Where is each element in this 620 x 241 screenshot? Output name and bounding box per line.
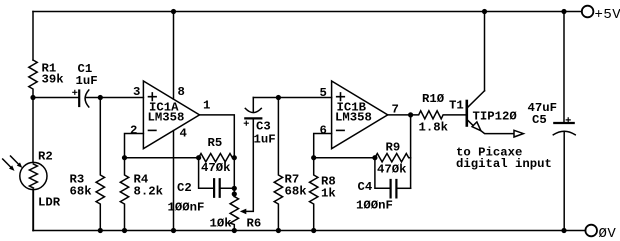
svg-text:R1Ø: R1Ø bbox=[422, 92, 445, 106]
resistor R3 68k bbox=[70, 98, 105, 231]
resistor R10 1.8k bbox=[411, 92, 467, 135]
svg-text:LM358: LM358 bbox=[148, 111, 185, 125]
light arrow 2 into LDR bbox=[3, 159, 15, 171]
wire left rail bottom corner bbox=[32, 190, 34, 231]
wire C3 bottom to R6 wiper bbox=[240, 118, 254, 214]
svg-text:5: 5 bbox=[320, 86, 327, 100]
svg-text:39k: 39k bbox=[42, 73, 65, 87]
wire +5V top rail bbox=[33, 11, 582, 13]
node pin8 on top rail bbox=[171, 9, 176, 14]
light arrow 1 into LDR bbox=[11, 156, 23, 168]
node R9/C4 left bbox=[372, 155, 377, 160]
svg-text:3: 3 bbox=[133, 85, 140, 99]
wire 0V bottom rail bbox=[33, 230, 585, 232]
svg-text:68k: 68k bbox=[285, 185, 308, 199]
wire emitter to Picaxe output arrow bbox=[481, 130, 524, 137]
svg-text:1ØØnF: 1ØØnF bbox=[356, 199, 393, 213]
resistor R8 1k bbox=[310, 158, 337, 231]
wire left rail to LDR bbox=[32, 98, 34, 163]
svg-text:1uF: 1uF bbox=[76, 74, 98, 88]
svg-text:R2: R2 bbox=[38, 150, 53, 164]
node R6 top bbox=[232, 191, 237, 196]
resistor R9 470k bbox=[375, 141, 411, 177]
op-amp U1 IC1A LM358 bbox=[143, 81, 210, 149]
svg-text:digital input: digital input bbox=[456, 157, 552, 171]
node collector on top rail bbox=[482, 9, 487, 14]
node R8 tap bbox=[311, 155, 316, 160]
wire IC1A output pin 1 bbox=[200, 115, 235, 158]
node C2 right bbox=[232, 186, 237, 191]
svg-text:1ØØnF: 1ØØnF bbox=[168, 201, 205, 215]
svg-text:C5: C5 bbox=[532, 113, 547, 127]
svg-text:1uF: 1uF bbox=[254, 133, 276, 147]
potentiometer R6 10k bbox=[210, 197, 262, 231]
node R1/C1/LDR junction bbox=[30, 95, 35, 100]
svg-text:8: 8 bbox=[178, 85, 185, 99]
wire IC1B output pin 7 bbox=[388, 114, 411, 116]
svg-text:T1: T1 bbox=[449, 99, 464, 113]
svg-text:1: 1 bbox=[203, 99, 210, 113]
wire node to C1 bbox=[33, 97, 79, 99]
wire C3 to IC1B pin 5 bbox=[253, 86, 331, 100]
node R6 bottom bbox=[232, 228, 237, 233]
wire IC1B pin 6 feedback bbox=[314, 123, 332, 157]
node output/R10 junction bbox=[408, 112, 413, 117]
svg-text:1Øk: 1Øk bbox=[210, 217, 233, 231]
svg-text:47Øk: 47Øk bbox=[201, 161, 231, 175]
svg-text:R9: R9 bbox=[386, 141, 401, 155]
terminal 0V bbox=[585, 225, 616, 241]
node R8 bottom bbox=[311, 228, 316, 233]
resistor R4 8.2k bbox=[120, 158, 163, 231]
svg-text:R6: R6 bbox=[247, 217, 262, 231]
node C5 bottom bbox=[561, 228, 566, 233]
svg-text:1.8k: 1.8k bbox=[419, 121, 449, 135]
wire feedback rail stage2 bbox=[314, 157, 375, 159]
svg-text:LDR: LDR bbox=[38, 196, 61, 210]
wire C1 to IC1A pin 3 bbox=[85, 85, 143, 99]
capacitor C1 1uF bbox=[73, 62, 98, 107]
capacitor C3 1uF bbox=[244, 98, 275, 147]
photoresistor R2 LDR bbox=[20, 150, 61, 231]
resistor R1 39k bbox=[29, 60, 64, 98]
svg-text:ØV: ØV bbox=[599, 226, 617, 241]
terminal +5V bbox=[582, 6, 620, 23]
op-amp U2 IC1B LM358 bbox=[332, 81, 399, 149]
capacitor C2 100nF bbox=[168, 158, 235, 215]
svg-text:4: 4 bbox=[180, 127, 188, 141]
wire IC1A pin 2 feedback bbox=[125, 123, 144, 157]
node pin4 bottom bbox=[171, 228, 176, 233]
capacitor C5 47uF bbox=[528, 12, 576, 231]
svg-text:LM358: LM358 bbox=[335, 111, 372, 125]
resistor R5 470k bbox=[199, 136, 235, 175]
wire IC1A pin 4 to 0V rail bbox=[174, 127, 188, 231]
capacitor C4 100nF bbox=[356, 158, 411, 213]
svg-text:68k: 68k bbox=[70, 185, 93, 199]
svg-text:C3: C3 bbox=[256, 120, 271, 134]
node R4 tap bbox=[122, 155, 127, 160]
svg-text:+5V: +5V bbox=[595, 7, 620, 23]
node R7 tap bbox=[276, 95, 281, 100]
svg-text:R5: R5 bbox=[208, 136, 223, 150]
node R3 bottom bbox=[98, 228, 103, 233]
svg-text:2: 2 bbox=[130, 123, 137, 137]
svg-text:8.2k: 8.2k bbox=[134, 185, 164, 199]
svg-text:47Øk: 47Øk bbox=[377, 163, 407, 177]
svg-text:TIP12Ø: TIP12Ø bbox=[473, 110, 518, 124]
wire output column to C2/R6 bbox=[233, 158, 235, 197]
node R3 tap bbox=[98, 95, 103, 100]
wire collector to +5V rail bbox=[484, 12, 486, 91]
transistor Q1 T1 TIP120 bbox=[449, 91, 517, 131]
node C5 top rail bbox=[561, 9, 566, 14]
svg-text:C2: C2 bbox=[177, 181, 192, 195]
svg-text:C4: C4 bbox=[358, 180, 373, 194]
node R5/C2 left bbox=[196, 155, 201, 160]
wire IC1A pin 8 to +5V rail bbox=[174, 12, 185, 100]
resistor R7 68k bbox=[274, 98, 307, 231]
wire feedback rail stage1 bbox=[125, 157, 199, 159]
svg-text:6: 6 bbox=[320, 123, 327, 137]
svg-text:1k: 1k bbox=[321, 187, 336, 201]
wire left rail top bbox=[32, 12, 34, 61]
node R7 bottom bbox=[276, 228, 281, 233]
text to Picaxe digital input bbox=[456, 146, 552, 172]
node R4 bottom bbox=[122, 228, 127, 233]
node R5 right bbox=[232, 155, 237, 160]
wire R9/C4 right column bbox=[410, 115, 412, 188]
